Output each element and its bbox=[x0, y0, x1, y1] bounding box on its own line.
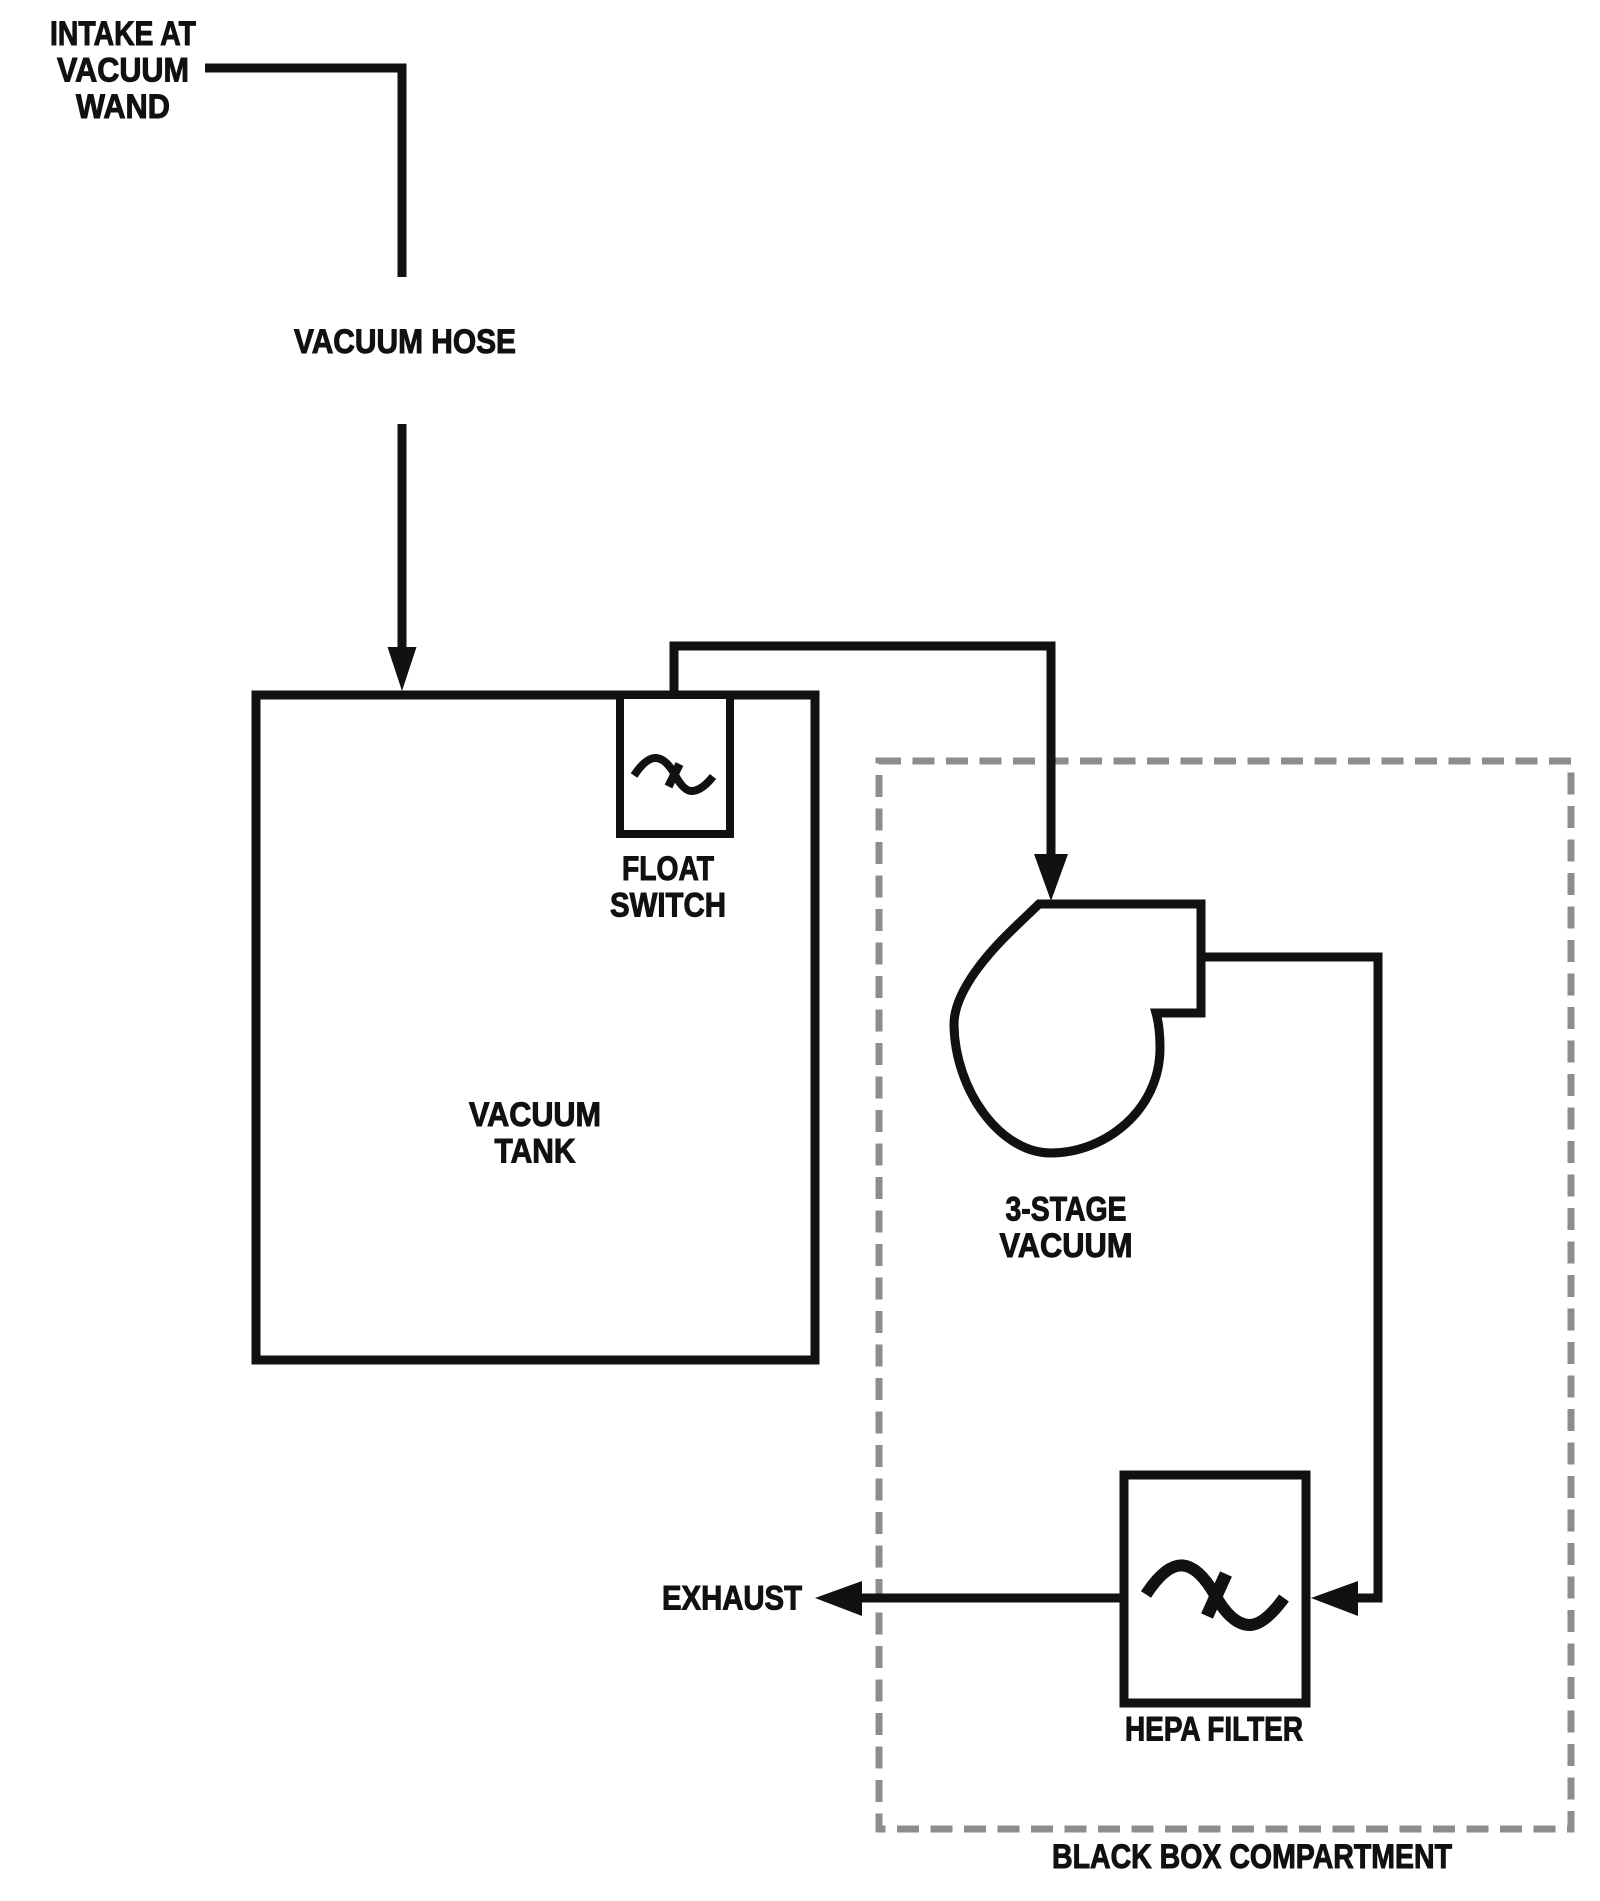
wire: vacuum hose into tank bbox=[398, 424, 407, 652]
float switch wave symbol bbox=[634, 758, 713, 791]
wire: intake to vacuum hose bbox=[205, 68, 402, 277]
svg-text:VACUUM: VACUUM bbox=[1000, 1227, 1133, 1265]
wire: hepa exhaust bbox=[858, 1594, 1124, 1603]
vacuum tank bbox=[256, 695, 815, 1360]
wire: blower outlet to hepa filter bbox=[1196, 957, 1378, 1598]
arrowhead into hepa filter bbox=[1311, 1581, 1358, 1616]
float switch box bbox=[620, 695, 730, 834]
svg-text:HEPA FILTER: HEPA FILTER bbox=[1125, 1711, 1303, 1749]
svg-text:INTAKE AT: INTAKE AT bbox=[50, 15, 196, 53]
hepa filter box bbox=[1124, 1475, 1306, 1703]
wire: float switch to 3-stage vacuum bbox=[674, 646, 1051, 858]
hepa filter wave symbol bbox=[1146, 1565, 1284, 1625]
3-stage vacuum blower bbox=[954, 904, 1201, 1153]
arrowhead exhaust bbox=[815, 1581, 862, 1616]
svg-text:3-STAGE: 3-STAGE bbox=[1006, 1191, 1127, 1229]
black box compartment (dashed enclosure) bbox=[879, 761, 1571, 1829]
svg-text:TANK: TANK bbox=[495, 1133, 576, 1171]
arrowhead into tank bbox=[388, 647, 417, 691]
svg-text:WAND: WAND bbox=[76, 88, 170, 126]
svg-text:VACUUM HOSE: VACUUM HOSE bbox=[294, 323, 516, 361]
arrowhead into blower bbox=[1034, 854, 1068, 901]
svg-text:FLOAT: FLOAT bbox=[622, 850, 714, 888]
svg-text:BLACK BOX COMPARTMENT: BLACK BOX COMPARTMENT bbox=[1052, 1838, 1452, 1876]
svg-text:EXHAUST: EXHAUST bbox=[662, 1580, 802, 1618]
svg-text:SWITCH: SWITCH bbox=[610, 887, 726, 925]
svg-text:VACUUM: VACUUM bbox=[469, 1096, 601, 1134]
svg-text:VACUUM: VACUUM bbox=[57, 52, 189, 90]
